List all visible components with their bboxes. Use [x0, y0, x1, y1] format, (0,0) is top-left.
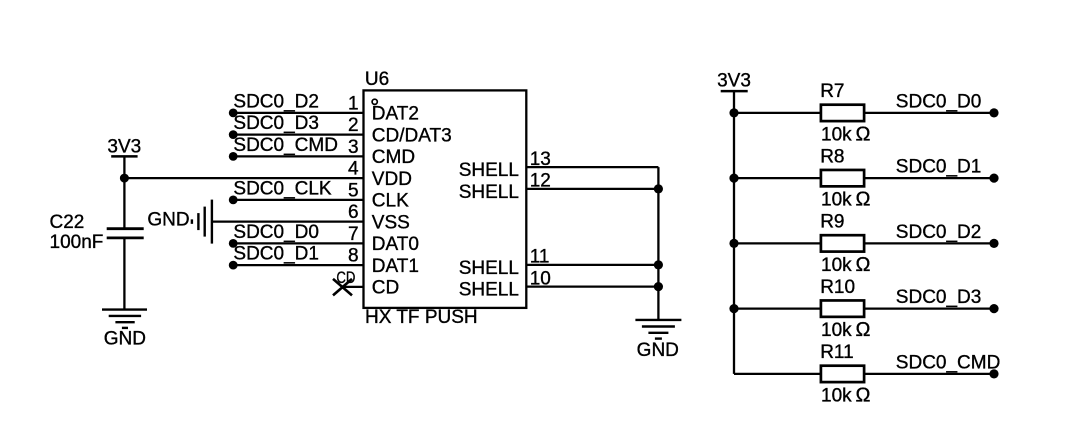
- svg-text:SDC0_D2: SDC0_D2: [233, 91, 319, 112]
- svg-text:Ω: Ω: [856, 384, 871, 406]
- svg-text:SDC0_CMD: SDC0_CMD: [896, 352, 1001, 373]
- svg-text:6: 6: [348, 202, 359, 223]
- svg-text:DAT2: DAT2: [372, 104, 419, 125]
- svg-text:SDC0_CMD: SDC0_CMD: [233, 135, 338, 156]
- svg-text:11: 11: [530, 247, 550, 268]
- svg-text:CD/DAT3: CD/DAT3: [372, 125, 452, 146]
- svg-text:3: 3: [348, 137, 359, 158]
- svg-text:R10: R10: [820, 277, 855, 298]
- svg-text:CD: CD: [372, 278, 399, 299]
- svg-text:SDC0_CLK: SDC0_CLK: [233, 178, 332, 199]
- svg-text:10k: 10k: [821, 385, 852, 406]
- svg-text:5: 5: [348, 180, 359, 201]
- svg-text:Ω: Ω: [856, 189, 871, 211]
- svg-text:SDC0_D3: SDC0_D3: [233, 113, 319, 134]
- svg-text:10: 10: [530, 268, 551, 289]
- svg-text:10k: 10k: [821, 320, 852, 341]
- svg-text:3V3: 3V3: [107, 137, 141, 158]
- svg-text:1: 1: [348, 93, 359, 114]
- svg-text:10k: 10k: [821, 190, 852, 211]
- svg-text:R8: R8: [820, 146, 844, 167]
- svg-text:12: 12: [530, 171, 551, 192]
- svg-text:GND: GND: [104, 328, 146, 349]
- svg-text:8: 8: [348, 246, 359, 267]
- svg-text:R9: R9: [820, 212, 844, 233]
- svg-text:Ω: Ω: [856, 254, 871, 276]
- svg-text:SDC0_D1: SDC0_D1: [233, 244, 319, 265]
- svg-text:3V3: 3V3: [717, 71, 751, 92]
- svg-text:SDC0_D2: SDC0_D2: [896, 222, 982, 243]
- svg-text:CLK: CLK: [372, 191, 409, 212]
- svg-text:R11: R11: [820, 342, 853, 363]
- svg-text:Ω: Ω: [856, 123, 871, 145]
- svg-text:SHELL: SHELL: [459, 160, 519, 181]
- svg-text:SHELL: SHELL: [459, 280, 519, 301]
- svg-text:DAT1: DAT1: [372, 256, 419, 277]
- svg-text:100nF: 100nF: [50, 232, 104, 253]
- svg-text:R7: R7: [820, 81, 844, 102]
- svg-text:Ω: Ω: [856, 319, 871, 341]
- svg-text:HX TF PUSH: HX TF PUSH: [365, 307, 478, 328]
- svg-text:SDC0_D0: SDC0_D0: [896, 91, 982, 112]
- svg-text:SDC0_D3: SDC0_D3: [896, 287, 982, 308]
- svg-text:2: 2: [348, 115, 359, 136]
- svg-text:4: 4: [348, 159, 359, 180]
- svg-text:10k: 10k: [821, 124, 852, 145]
- svg-text:10k: 10k: [821, 255, 852, 276]
- svg-text:VSS: VSS: [372, 212, 410, 233]
- svg-text:U6: U6: [365, 69, 389, 90]
- svg-text:VDD: VDD: [372, 169, 412, 190]
- svg-text:7: 7: [348, 224, 359, 245]
- svg-text:GND: GND: [147, 210, 189, 231]
- svg-text:SHELL: SHELL: [459, 182, 519, 203]
- svg-text:SDC0_D0: SDC0_D0: [233, 222, 319, 243]
- svg-text:DAT0: DAT0: [372, 234, 419, 255]
- svg-text:13: 13: [530, 149, 551, 170]
- svg-text:SDC0_D1: SDC0_D1: [896, 157, 982, 178]
- svg-text:GND: GND: [637, 340, 679, 361]
- svg-text:SHELL: SHELL: [459, 258, 519, 279]
- svg-text:C22: C22: [50, 212, 85, 233]
- svg-text:CD: CD: [336, 268, 355, 287]
- svg-text:CMD: CMD: [372, 147, 415, 168]
